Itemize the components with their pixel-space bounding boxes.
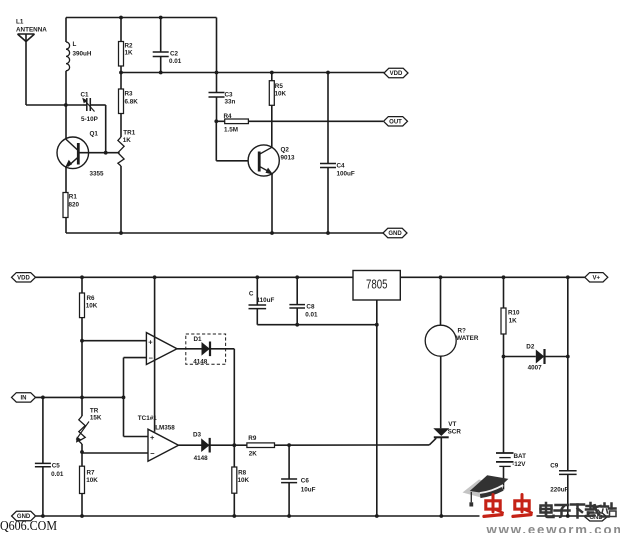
svg-text:VDD: VDD [390,71,403,77]
svg-text:D3: D3 [193,432,202,439]
svg-text:WATER: WATER [456,335,479,342]
svg-text:820: 820 [69,202,80,209]
svg-text:R6: R6 [87,295,96,302]
svg-text:10uF: 10uF [301,487,316,494]
svg-text:C9: C9 [550,463,559,470]
svg-text:220uF: 220uF [550,487,568,494]
svg-text:R7: R7 [87,470,96,477]
svg-text:C2: C2 [170,51,179,58]
svg-text:TR1: TR1 [123,130,135,137]
svg-text:R10: R10 [508,310,520,317]
svg-text:L: L [73,41,77,48]
svg-text:1K: 1K [509,318,518,325]
svg-text:4148: 4148 [194,455,209,462]
svg-text:C8: C8 [306,304,315,311]
svg-text:SCR: SCR [448,429,462,436]
svg-text:100uF: 100uF [337,171,355,178]
svg-text:9013: 9013 [281,155,296,162]
svg-text:10K: 10K [275,91,287,98]
svg-text:GND: GND [388,231,402,237]
svg-text:C1: C1 [81,92,90,99]
svg-text:2K: 2K [249,451,258,458]
svg-text:R5: R5 [275,83,284,90]
svg-text:−: − [150,449,155,458]
svg-text:10K: 10K [86,303,98,310]
svg-text:+: + [148,337,153,346]
svg-text:5-10P: 5-10P [81,116,98,123]
svg-text:R8: R8 [238,470,247,477]
svg-text:Q2: Q2 [281,147,290,154]
svg-text:4148: 4148 [193,359,208,366]
svg-text:BAT: BAT [514,453,527,460]
svg-text:C4: C4 [337,163,346,170]
svg-text:-12V: -12V [512,461,526,468]
svg-text:R2: R2 [125,43,134,50]
svg-text:VDD: VDD [17,276,30,282]
svg-text:LM358: LM358 [155,424,175,431]
svg-text:0.01: 0.01 [305,312,318,319]
svg-text:L1: L1 [16,19,24,26]
svg-text:33n: 33n [225,99,236,106]
svg-text:7805: 7805 [366,278,388,292]
svg-text:C: C [249,291,254,298]
svg-text:1K: 1K [123,137,132,144]
svg-text:R1: R1 [69,194,78,201]
svg-text:Q606.COM: Q606.COM [0,519,57,533]
svg-text:C5: C5 [52,463,61,470]
svg-text:R9: R9 [248,435,257,442]
svg-text:390uH: 390uH [73,51,92,58]
svg-text:Q1: Q1 [90,131,99,138]
svg-text:0.01: 0.01 [169,58,182,65]
svg-text:R3: R3 [125,91,134,98]
svg-text:15K: 15K [90,415,102,422]
svg-text:C3: C3 [225,92,234,99]
svg-text:110uF: 110uF [257,297,275,304]
svg-text:C6: C6 [301,478,310,485]
svg-text:ANTENNA: ANTENNA [16,27,47,34]
svg-text:D2: D2 [526,344,535,351]
svg-text:1.5M: 1.5M [224,127,238,134]
svg-text:R4: R4 [224,113,233,120]
svg-text:0.01: 0.01 [51,471,64,478]
svg-text:10K: 10K [86,477,98,484]
svg-text:R?: R? [458,328,467,335]
svg-text:3355: 3355 [90,171,105,178]
svg-text:OUT: OUT [389,120,402,126]
svg-text:4007: 4007 [528,365,543,372]
svg-text:+: + [150,433,155,442]
svg-text:TR: TR [90,408,99,415]
svg-text:VT: VT [448,421,456,428]
svg-text:D1: D1 [194,336,203,343]
svg-text:1K: 1K [125,50,134,57]
svg-text:V+: V+ [593,276,601,282]
svg-text:10K: 10K [238,477,250,484]
svg-text:www.eeworm.com: www.eeworm.com [486,522,620,533]
svg-text:IN: IN [21,396,27,402]
svg-text:−: − [149,353,154,362]
svg-text:6.8K: 6.8K [125,99,139,106]
